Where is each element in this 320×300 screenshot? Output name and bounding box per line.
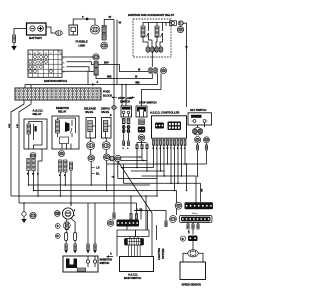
label L.W [17, 123, 19, 128]
connector (battery output) [55, 31, 62, 36]
ignition coil (distributor) [62, 208, 76, 219]
wire mesh vp10 [184, 145, 186, 165]
connector (relay right) [178, 21, 183, 25]
label W/B (acc) [135, 82, 140, 85]
label B.L [91, 173, 100, 176]
inhibitor relay coil [56, 120, 60, 133]
relay connector pins 2 [155, 47, 163, 53]
wire mesh h4 [131, 170, 165, 172]
wire ignition switch pin 1 [62, 56, 93, 58]
label W (line) [111, 114, 113, 116]
svg-text:IGNITION AND ACCESSORY RELAY: IGNITION AND ACCESSORY RELAY [128, 13, 174, 17]
wire inhibitor pin 1 to bus [60, 172, 62, 197]
connector (ascd relay, circled) [30, 153, 36, 159]
svg-text:BLOCK: BLOCK [103, 93, 112, 97]
connector (set switch, circled) [194, 137, 209, 143]
wire fuse block to bus (left inner) [19, 100, 31, 203]
speed sensor bracket [183, 253, 203, 262]
svg-text:(Meter): (Meter) [192, 212, 198, 215]
wire L.OR [131, 196, 167, 230]
label W/B (ign sw) [107, 76, 138, 79]
wire servo valve connector down [105, 150, 107, 154]
svg-text:VALVE: VALVE [85, 110, 93, 114]
bus line 2 [34, 190, 177, 192]
label B/W [104, 62, 109, 65]
connector (set switch pair) [192, 128, 202, 135]
label W (circled) [55, 234, 60, 239]
connector stack (ignition coil) [63, 219, 70, 229]
label LIGHTING SYSTEM [157, 248, 165, 260]
meter multi connector [185, 202, 214, 209]
svg-text:L.OR: L.OR [137, 209, 143, 212]
wire mesh v13 [195, 176, 197, 202]
wire B/W (ign sw) [98, 65, 148, 72]
ascd relay contact [34, 124, 37, 134]
label STOP SWITCH [139, 100, 157, 104]
inhibitor switch contact bracket [66, 259, 77, 269]
label A.S.C.D. CONTROLLER [150, 110, 179, 114]
svg-text:A.S.C.D.: A.S.C.D. [128, 272, 138, 276]
svg-text:STOP LAMP: STOP LAMP [118, 96, 133, 100]
label RELEASE VALVE [84, 106, 96, 114]
junction (fusible link top) [86, 18, 88, 20]
svg-text:LINK: LINK [79, 43, 87, 47]
label SET SWITCH [190, 108, 206, 112]
svg-text:RELEASE: RELEASE [84, 106, 96, 110]
svg-text:W/B: W/B [107, 76, 112, 79]
connector (stop harness) [109, 156, 114, 161]
arrow A (accessory) [92, 81, 99, 86]
label W (top) [109, 15, 112, 19]
wire fuse block to bus (left outer) [11, 100, 24, 196]
wire to set switch [183, 23, 186, 107]
inhibitor switch box [63, 256, 98, 272]
arrow A (main switch) [106, 252, 113, 257]
connector (relay output, circled) [161, 68, 167, 74]
wire release valve to bus [90, 162, 92, 186]
connector (ignition switch, circled) [93, 54, 99, 60]
label STOP LAMP SWITCH [118, 96, 133, 104]
svg-text:SWITCH: SWITCH [120, 100, 130, 104]
svg-text:VALVE: VALVE [101, 110, 109, 114]
wire release valve connector down [90, 150, 92, 155]
wire ignition coil feed [70, 203, 72, 206]
wire servo valve to connector [105, 138, 107, 142]
fusible link FL box [69, 25, 78, 35]
wire mesh h0 [120, 156, 142, 158]
connector (ground, circled) [30, 212, 36, 218]
svg-text:M: M [29, 53, 31, 55]
connector (fusible link) [90, 25, 99, 34]
svg-text:FUSE: FUSE [103, 90, 110, 94]
ground (battery) [11, 43, 17, 51]
wire relay output down [151, 52, 153, 67]
wire stop switch right down [146, 149, 148, 161]
stop switch connector 2 [138, 127, 145, 133]
ascd controller pin labels [153, 148, 187, 150]
stop lamp switch feed [121, 84, 127, 106]
label IGNITION AND ACCESSORY RELAY [128, 13, 174, 17]
wire set switch down [198, 122, 205, 127]
main switch bracket [117, 230, 152, 257]
svg-text:RELAY: RELAY [58, 110, 67, 114]
wire battery negative to fusible link and ground [14, 29, 27, 36]
wire mesh h7 [112, 162, 158, 179]
label FUSIBLE LINK [76, 40, 88, 48]
relay connector pins 1 [146, 47, 155, 53]
wire servo valve to bus [106, 161, 108, 192]
wire ignition switch pin B [67, 67, 94, 72]
stop lamp switch pins [122, 118, 130, 124]
inhibitor relay armature [65, 122, 70, 132]
stop lamp switch [121, 106, 132, 117]
connector stack (main harness) [102, 26, 106, 41]
wire W to pin [113, 161, 115, 219]
svg-text:A.S.C.D. CONTROLLER: A.S.C.D. CONTROLLER [150, 110, 179, 114]
connector (check, circled) [170, 216, 177, 223]
wire mesh vp6 [170, 145, 172, 183]
connector (ignition coil, circled) [54, 211, 60, 217]
inhibitor relay contact [71, 120, 76, 133]
inhibitor relay pins [59, 160, 67, 172]
svg-text:INHIBITOR: INHIBITOR [100, 258, 113, 262]
wire harness to W bus [104, 20, 114, 26]
wire main connector to main switch [126, 227, 128, 231]
speed sensor connector [188, 236, 198, 242]
label B (circled) [55, 224, 60, 229]
ascd controller connector A [155, 123, 164, 129]
wire release valve to connector [90, 138, 92, 142]
wire set switch pin v [197, 150, 199, 177]
ascd main switch box [120, 257, 154, 272]
bus line 3 [11, 195, 157, 197]
release valve [86, 118, 96, 139]
wire mesh v1 [136, 157, 138, 168]
relay contact 2 [161, 26, 163, 37]
label FUSE BLOCK [103, 90, 112, 98]
wire stop switch mid down [141, 149, 143, 161]
relay coil 1 [141, 26, 145, 37]
connector (W line) [112, 106, 117, 110]
wire ignition switch pin A [67, 62, 94, 65]
svg-text:RELAY: RELAY [33, 112, 42, 116]
ignition switch connector pins [94, 62, 98, 76]
label A.S.C.D. MAIN SWITCH [124, 272, 141, 280]
connector (release valve 2) [88, 155, 95, 162]
svg-text:W/B: W/B [135, 82, 140, 85]
arrowhead (set switch wire) [185, 46, 187, 50]
wire mesh vp9 [181, 145, 183, 176]
wire ignition switch pin C [62, 71, 88, 84]
wire speed sensor feed [193, 202, 196, 235]
svg-text:LIGHTING: LIGHTING [157, 248, 161, 260]
ascd relay pin labels [27, 174, 39, 176]
bus line 1 [29, 184, 151, 186]
label W (relay out) [138, 69, 141, 72]
stop lamp switch wires down [123, 133, 130, 150]
ignition switch table contacts [29, 56, 53, 73]
label OR (speed sensor) [189, 230, 191, 233]
bus line 4 [19, 202, 137, 204]
main multi connector [117, 220, 140, 227]
label B (fusible link) [82, 17, 84, 19]
ascd relay wiring [29, 122, 42, 150]
servo valve [102, 118, 112, 139]
ignition switch pin labels [63, 58, 65, 74]
check connector pins [187, 223, 199, 230]
svg-text:OR: OR [202, 188, 204, 192]
check multi connector [180, 216, 213, 223]
main switch connector [125, 239, 144, 246]
ascd relay box [24, 119, 47, 149]
label SPEED SENSOR [182, 283, 201, 287]
set switch pins [197, 143, 208, 150]
ascd relay pins [27, 159, 35, 171]
connector (stop harness, circled) [115, 155, 121, 161]
wire lighting system [146, 196, 157, 240]
label A.S.C.D. RELAY [33, 108, 44, 116]
stop switch connectors 3 [136, 141, 148, 149]
fuse block [15, 88, 101, 100]
label M (circled) [180, 236, 185, 241]
connector (meter, circled) [175, 202, 182, 209]
label OR (vert) [202, 188, 204, 192]
label SERVO VALVE [101, 106, 110, 114]
wire mesh v12 [186, 164, 188, 191]
svg-text:IGNITION SWITCH: IGNITION SWITCH [44, 79, 67, 83]
svg-text:BATTERY: BATTERY [29, 36, 42, 40]
inhibitor switch pins upper [65, 219, 77, 241]
wire mesh h6 [124, 164, 201, 184]
stop lamp switch connectors [122, 125, 130, 132]
wire W vertical (left) [113, 20, 115, 157]
svg-text:SPEED SENSOR: SPEED SENSOR [182, 283, 201, 287]
svg-text:INHIBITOR: INHIBITOR [56, 106, 69, 110]
svg-text:STOP SWITCH: STOP SWITCH [139, 100, 157, 104]
connector (inhibitor relay, circled) [59, 151, 65, 157]
wire mesh vp5 [167, 145, 169, 164]
label L.R [91, 167, 100, 170]
connector (harness, circled) [101, 42, 108, 49]
connector (relay right, circled) [177, 26, 183, 32]
wire mesh vp1 [153, 145, 155, 168]
wire diagonal [118, 161, 152, 230]
fusible link F/L (left) [13, 35, 16, 43]
relay internal wiring [143, 23, 171, 47]
wire W vertical (right) [116, 20, 118, 85]
wire mesh vp7 [174, 145, 176, 191]
wire mesh h1 [121, 160, 147, 162]
label BATTERY [29, 36, 42, 40]
inhibitor relay pin labels [59, 175, 66, 177]
inhibitor relay contact pin [70, 162, 73, 170]
wire bus2 to meter [176, 191, 178, 216]
wire mesh vp2 [156, 145, 158, 197]
relay contact 1 [147, 26, 149, 37]
ascd relay coil [27, 124, 31, 134]
ascd controller box [152, 116, 187, 138]
wire inhibitor pin 2 to bus [65, 172, 67, 186]
wire ascd relay pin 2 to bus [33, 171, 35, 192]
wire mesh vp8 [177, 145, 179, 183]
main connector pins [130, 214, 138, 220]
inhibitor switch pin arrows [64, 203, 96, 254]
stop switch [136, 106, 147, 117]
wire relay pair to stop lamp bus [157, 73, 159, 84]
ascd controller connector B [168, 122, 182, 131]
label W (mid) [119, 21, 122, 25]
ascd controller pins [153, 140, 187, 146]
inhibitor switch lower connector [78, 268, 86, 272]
svg-text:A: A [97, 81, 99, 84]
wire mesh h5 [142, 175, 197, 177]
speed sensor box [180, 262, 206, 280]
label IGNITION SWITCH [44, 79, 67, 83]
wire ascd relay pin 3 to bus [37, 149, 42, 197]
label INHIBITOR SWITCH [100, 258, 113, 266]
connector B (relay box right) [170, 21, 177, 26]
connector (servo valve) [102, 142, 110, 150]
ignition switch contact table [28, 50, 62, 77]
inhibitor relay box [52, 116, 79, 149]
svg-text:M: M [182, 238, 184, 241]
svg-text:B.L: B.L [96, 173, 100, 176]
wire W/B (ign sw) [96, 73, 152, 78]
svg-text:L.R: L.R [96, 167, 100, 170]
svg-text:SERVO: SERVO [101, 106, 110, 110]
svg-text:SWITCH: SWITCH [100, 261, 110, 265]
svg-text:SYSTEM: SYSTEM [161, 248, 165, 259]
wire ascd relay pin 1 to bus [28, 171, 30, 186]
svg-text:MAIN SWITCH: MAIN SWITCH [124, 276, 141, 280]
wire set switch pin v2 [206, 150, 208, 164]
main switch pins [129, 237, 141, 257]
wire inhibitor pin 3 to ignition coil [70, 170, 72, 206]
battery B1 [27, 23, 47, 35]
speed sensor plug [188, 241, 198, 257]
arrow (stop switch) [132, 96, 135, 98]
label L.OR [137, 209, 143, 212]
label meter [192, 212, 198, 215]
wire accessory feed [25, 85, 158, 89]
ignition and accessory relay box (dashed) [133, 19, 171, 57]
connector (main, circled) [107, 220, 114, 227]
wire mesh h2 [107, 163, 207, 165]
label INHIBITOR RELAY [56, 106, 69, 114]
wire mesh vp4 [163, 145, 165, 176]
wire mesh h3 [121, 167, 154, 169]
stop switch connector [139, 119, 145, 125]
wire relay circled conn to stop switch [142, 74, 162, 107]
connector (relay output) [148, 68, 158, 74]
wire mesh vp3 [160, 145, 162, 171]
wire fusible link to connector [73, 19, 95, 25]
arrow (stop lamp feed) [111, 96, 117, 99]
wire mesh v2 [146, 161, 148, 172]
wire stop switch left down [136, 149, 138, 157]
connector (stop switch, circled) [138, 135, 145, 142]
label G.W [9, 123, 11, 128]
wire meter feed [200, 183, 202, 202]
connector (release valve) [87, 142, 95, 150]
inhibitor relay wiring [58, 118, 76, 149]
connector (servo valve 2) [103, 154, 110, 161]
inhibitor switch contacts [86, 256, 96, 267]
ground (left bus) [21, 202, 26, 223]
set switch [188, 113, 212, 125]
svg-text:W: W [111, 114, 113, 116]
relay coil 2 [155, 26, 159, 37]
wire battery positive to connector [46, 27, 56, 33]
svg-text:SET SWITCH: SET SWITCH [190, 108, 206, 112]
